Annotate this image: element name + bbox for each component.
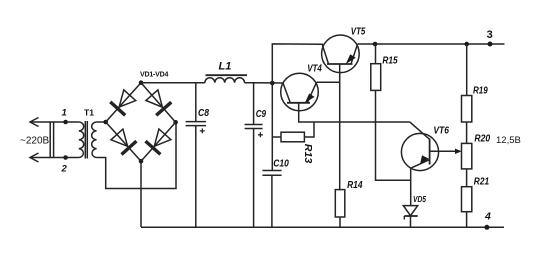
svg-text:R20: R20 [474,133,490,144]
svg-text:R19: R19 [473,85,488,96]
capacitor C8 [186,83,210,227]
svg-text:R14: R14 [347,180,363,191]
svg-text:VT6: VT6 [433,126,449,137]
wire secondary top [97,121,106,123]
svg-text:1: 1 [62,108,67,119]
wire primary top [66,121,79,123]
svg-text:C8: C8 [198,108,209,119]
transformer T1 [84,108,94,118]
input arrow top [30,118,66,127]
node rail R19 [464,42,469,47]
input arrow bottom [30,153,66,162]
resistor R14 [335,180,363,227]
svg-text:R13: R13 [302,144,313,164]
wire top rail [358,43,505,45]
T1 core [85,121,87,159]
node bridge top [139,80,144,85]
transistor VT5 [322,26,366,72]
svg-text:T1: T1 [84,108,94,118]
wire VT5 base down [339,64,341,190]
svg-text:VD1-VD4: VD1-VD4 [140,72,168,79]
wire R15 to VT6 emitter [376,90,411,180]
inductor L1 [205,61,247,83]
wire R20-R21 [466,169,468,187]
svg-text:VD5: VD5 [413,194,426,204]
T1 primary winding [79,122,84,158]
label VD1-VD4 [140,72,168,79]
svg-text:L1: L1 [219,61,232,73]
diode VD2 top-right edge [141,83,176,123]
resistor R20 [462,133,491,169]
node terminal 3 [487,29,493,47]
svg-text:R15: R15 [382,55,398,66]
wire main rail [141,82,283,84]
resistor R15 [371,44,398,90]
label 12,5B [496,135,521,146]
svg-text:C9: C9 [256,109,267,120]
wire secondary bottom to AC return [97,122,176,188]
resistor R21 [462,177,490,212]
wire VT4 emitter to VT5 base [317,81,340,83]
wire R21 down [466,212,468,227]
svg-text:4: 4 [484,211,491,223]
resistor R19 [462,85,489,122]
transistor VT6 [401,122,449,171]
resistor R13 [272,122,314,164]
svg-text:VT4: VT4 [307,64,322,75]
svg-text:12,5В: 12,5В [496,135,521,146]
transistor VT4 [281,64,322,111]
label ~220B [20,136,50,147]
svg-text:3: 3 [487,29,493,41]
svg-text:C10: C10 [273,158,289,169]
capacitor C9 [245,83,267,227]
svg-text:R21: R21 [474,177,490,188]
wire bottom rail [141,226,504,228]
T1 secondary winding [92,122,97,158]
diode VD4 bottom-right edge [141,122,176,161]
node bridge bottom [139,159,144,164]
wire VT6 base to R20 wiper [430,149,462,154]
wire VT6 emitter to VD5 [410,168,412,205]
wire R19-R20 [466,122,468,143]
svg-text:2: 2 [61,164,68,175]
node R15 top [373,42,378,47]
diode VD5 zener [403,194,426,227]
wire primary bottom [66,157,79,159]
node 2 [61,155,68,174]
node terminal 4 [484,211,491,230]
plug lines [50,122,53,158]
diode VD3 bottom-left edge [106,122,141,161]
svg-text:VT5: VT5 [351,26,366,37]
node 1 [62,108,68,125]
node rail junction [270,81,275,86]
wire bottom vertex to bottom rail [140,161,142,227]
node bridge right [173,120,178,125]
node bridge left [103,120,108,125]
capacitor C10 [262,158,289,227]
diode VD1 top-left edge [106,83,141,122]
svg-text:~220В: ~220В [20,136,50,147]
wire VT4 base line [299,103,410,122]
wire right column top [466,44,468,96]
wire junction to C10 [271,83,273,171]
wire VT5 collector branch [272,44,323,83]
